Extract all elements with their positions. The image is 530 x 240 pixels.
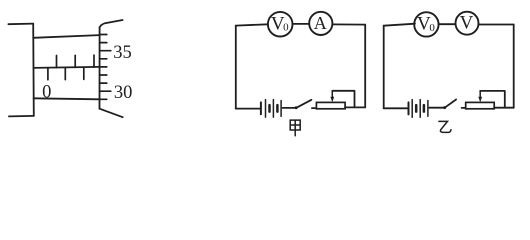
thimble scale ticks [100,35,111,100]
svg-text:35: 35 [113,43,132,63]
circuit jia: top wire right segment [332,23,365,25]
micrometer frame top line [8,23,33,26]
micrometer frame vertical [32,24,35,116]
circuit yi: top wire right segment [479,24,514,26]
circuit jia: left wire [235,26,237,109]
rheostat (yi) [466,91,514,109]
battery (jia) [261,100,296,118]
circuit jia: wire between V0 and A [293,23,310,25]
svg-text:0: 0 [429,22,435,34]
thimble edge [99,27,101,109]
label jia (drawn glyph) [290,120,300,136]
thimble bottom bevel [100,109,123,118]
ammeter A (jia) [309,12,332,35]
voltmeter V0 (jia) [268,12,293,37]
switch (jia) [295,100,317,110]
svg-text:V: V [460,12,474,33]
micrometer sleeve reference line [34,67,100,68]
voltmeter V (yi) [456,12,479,35]
micrometer sleeve top line [33,35,99,38]
circuit yi: left wire [383,26,385,109]
sleeve main-scale ticks (below line) [48,68,84,80]
circuit yi: right wire [513,25,515,108]
circuit yi: top wire left segment [384,24,415,26]
sleeve half-mm ticks (above line) [57,55,95,68]
svg-text:A: A [314,13,327,33]
label yi (drawn glyph) [439,121,451,132]
rheostat (jia) [316,91,365,109]
thimble top bevel [100,20,123,27]
switch (yi) [443,100,465,110]
svg-text:0: 0 [283,22,289,34]
voltmeter V0 (yi) [414,12,438,36]
micrometer frame bottom line [9,115,34,118]
circuit jia: top wire left segment [236,24,268,25]
svg-text:0: 0 [42,82,51,102]
circuit yi: wire between V0 and V [439,23,456,25]
circuit yi: bottom wire to battery [384,107,408,109]
micrometer sleeve bottom line [34,98,100,99]
svg-text:30: 30 [114,83,132,103]
circuit jia: right wire [364,25,366,108]
battery (yi) [409,100,445,118]
circuit jia: bottom wire to battery [236,108,260,110]
